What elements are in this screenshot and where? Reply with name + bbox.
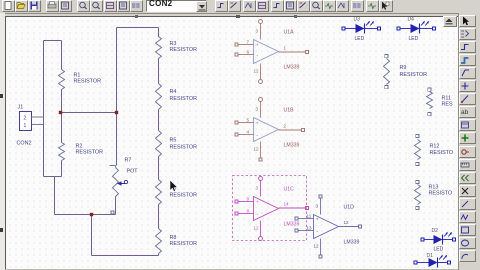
potentiometer R7	[110, 165, 116, 167]
svg-text:CON2: CON2	[17, 141, 32, 147]
svg-text:2: 2	[284, 124, 287, 129]
wire R2 bottom	[61, 161, 63, 177]
svg-text:-: -	[257, 52, 259, 58]
scroll up button	[443, 16, 457, 27]
svg-text:LM339: LM339	[344, 240, 360, 246]
svg-text:RESISTOR: RESISTOR	[170, 47, 198, 53]
svg-text:LM339: LM339	[284, 222, 300, 228]
svg-text:12: 12	[254, 69, 260, 74]
svg-text:U1A: U1A	[284, 30, 295, 36]
svg-text:U1C: U1C	[284, 187, 295, 193]
wire bottom horizontal to R8	[92, 255, 159, 257]
svg-text:LED: LED	[434, 247, 444, 253]
right tool palette	[459, 15, 476, 27]
wire R5-R6	[158, 157, 160, 180]
op-amp U1B	[254, 118, 279, 142]
wire R3-R4	[158, 59, 160, 84]
junction bottom node	[90, 213, 93, 216]
right palette background	[458, 13, 480, 270]
svg-text:RES: RES	[442, 102, 453, 108]
svg-text:J1: J1	[18, 105, 24, 111]
wire left vertical	[43, 41, 45, 177]
resistor R6	[156, 180, 162, 205]
svg-text:2: 2	[24, 116, 27, 122]
svg-text:1: 1	[24, 123, 27, 129]
top toolbar buttons left	[2, 0, 15, 12]
svg-text:11: 11	[307, 213, 312, 218]
svg-text:R9: R9	[400, 65, 407, 71]
resistor R4	[156, 84, 162, 110]
resistor R3	[156, 37, 162, 59]
wire down from junction	[91, 215, 93, 256]
wire R4-R5	[158, 110, 160, 131]
junction at pot column tap	[115, 111, 118, 114]
svg-text:RESISTO: RESISTO	[430, 150, 454, 156]
svg-text:LED: LED	[355, 36, 365, 42]
LED D1	[414, 261, 417, 264]
svg-text:RESISTOR: RESISTOR	[170, 145, 198, 151]
svg-text:3: 3	[256, 29, 259, 34]
resistor R2	[59, 143, 65, 161]
resistor R13	[415, 185, 421, 205]
svg-text:LM339: LM339	[284, 143, 300, 149]
svg-text:12: 12	[344, 220, 350, 225]
svg-text:+: +	[316, 217, 319, 222]
svg-text:12: 12	[254, 226, 260, 231]
svg-text:RESISTOR: RESISTOR	[170, 241, 198, 247]
op-amp U1D	[314, 215, 339, 239]
svg-text:LM339: LM339	[284, 65, 300, 71]
svg-text:9: 9	[247, 196, 250, 201]
svg-text:RESISTOR: RESISTOR	[74, 79, 102, 85]
svg-text:-: -	[317, 228, 319, 234]
svg-text:13: 13	[307, 225, 313, 230]
svg-text:12: 12	[254, 147, 260, 152]
wire J1 to resistor chain horizontal	[61, 112, 117, 114]
svg-text:RESISTOR: RESISTOR	[76, 150, 104, 156]
svg-text:RESISTO: RESISTO	[429, 191, 453, 197]
resistor R5	[156, 131, 162, 157]
resistor R12	[415, 140, 421, 160]
svg-text:D2: D2	[432, 228, 439, 234]
connector J1	[20, 112, 32, 131]
svg-text:D1: D1	[427, 253, 434, 259]
svg-text:5: 5	[247, 117, 250, 122]
top toolbar buttons right	[215, 0, 228, 12]
canvas top ticks	[135, 15, 138, 18]
junction at R1/R2 tap	[59, 111, 62, 114]
svg-text:RESISTOR: RESISTOR	[170, 193, 198, 199]
left edge panel	[0, 13, 5, 270]
op-amp U1C selected	[233, 176, 307, 241]
svg-text:U1B: U1B	[284, 108, 295, 114]
svg-text:D4: D4	[408, 17, 415, 23]
svg-text:7: 7	[247, 39, 250, 44]
wire left loop bottom horizontal	[44, 176, 62, 178]
combo box CON2	[146, 0, 207, 12]
wire R3 top lead	[158, 28, 160, 37]
LED D2	[421, 238, 424, 241]
svg-text:R5: R5	[170, 138, 177, 144]
svg-text:-: -	[257, 211, 259, 217]
wire jog vertical	[54, 177, 56, 215]
top toolbar strip	[0, 0, 480, 14]
svg-text:12: 12	[314, 244, 320, 249]
svg-text:3: 3	[316, 204, 319, 209]
svg-text:4: 4	[247, 129, 250, 134]
wire R1 to R2	[61, 90, 63, 143]
schematic window border	[5, 16, 458, 17]
LED D4	[397, 27, 400, 30]
mouse cursor	[170, 180, 177, 192]
resistor R11	[427, 92, 433, 109]
svg-text:+: +	[256, 200, 259, 205]
svg-text:+: +	[256, 43, 259, 48]
svg-text:RESISTOR: RESISTOR	[170, 96, 198, 102]
svg-text:POT: POT	[127, 169, 139, 175]
resistor R1	[59, 70, 65, 90]
wire top horizontal middle	[117, 27, 159, 29]
svg-text:8: 8	[247, 208, 250, 213]
wire R6-R8	[158, 205, 160, 229]
wire pot bottom horizontal	[55, 214, 116, 216]
svg-text:R12: R12	[430, 144, 440, 150]
svg-text:3: 3	[256, 186, 259, 191]
svg-text:R7: R7	[125, 158, 132, 164]
svg-text:R4: R4	[170, 89, 177, 95]
svg-text:3: 3	[256, 107, 259, 112]
svg-text:RESISTOR: RESISTOR	[400, 72, 428, 78]
svg-text:D3: D3	[354, 17, 361, 23]
svg-text:-: -	[257, 132, 259, 138]
wire pot column vertical	[116, 28, 118, 166]
svg-text:6: 6	[247, 49, 250, 54]
bottom subtle border	[5, 269, 458, 270]
svg-text:14: 14	[284, 202, 290, 207]
resistor R9	[384, 59, 390, 85]
resistor R8	[156, 229, 162, 254]
svg-text:1: 1	[284, 46, 287, 51]
svg-text:U1D: U1D	[344, 205, 355, 211]
LED D3	[342, 27, 345, 30]
left edge specks	[0, 94, 3, 98]
wire left loop top horizontal	[44, 40, 62, 42]
op-amp U1A	[254, 40, 279, 64]
svg-text:+: +	[256, 121, 259, 126]
wire R1 column top	[61, 41, 63, 70]
wire R8 bottom lead	[158, 254, 160, 256]
svg-text:LED: LED	[409, 36, 419, 42]
